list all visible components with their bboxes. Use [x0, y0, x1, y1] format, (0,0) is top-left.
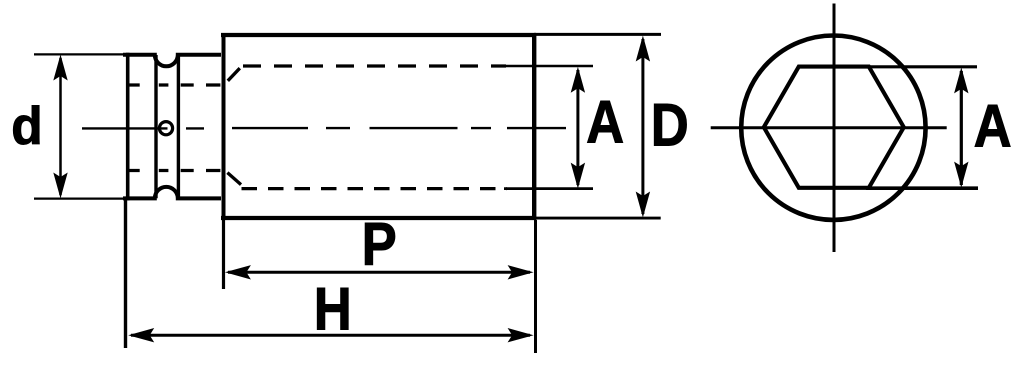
dimension A2 arrow line [960, 71, 963, 185]
end view horizontal centerline [711, 126, 947, 129]
hex bore [764, 67, 904, 188]
dimension A2 arrowhead down [954, 162, 968, 188]
dimension D arrow line [641, 39, 644, 214]
dimension A1 arrow line [576, 70, 579, 185]
svg-text:H: H [314, 276, 352, 343]
dimension H left extension line [124, 197, 127, 348]
centerline body [232, 127, 566, 129]
dimension A1 bottom extension line [504, 187, 593, 190]
svg-text:A: A [586, 89, 624, 156]
dimension d arrowhead up [53, 55, 67, 81]
socket body top edge [221, 33, 536, 37]
dimension H arrow line [131, 334, 530, 337]
svg-text:P: P [362, 211, 397, 278]
dimension d bottom extension line [34, 198, 125, 200]
dimension D top extension line [534, 33, 661, 36]
hex bore hidden line bottom [242, 187, 508, 190]
drive left edge [126, 53, 130, 201]
dimension A1 arrowhead up [571, 67, 585, 93]
label P [362, 211, 397, 278]
label H [314, 276, 352, 343]
label A1 [586, 89, 624, 156]
chamfer diagonal top [228, 68, 240, 81]
end view vertical centerline [833, 4, 836, 253]
dimension d top extension line [34, 53, 123, 55]
dimension P left extension line [222, 220, 225, 289]
drive hidden line top [129, 83, 220, 86]
socket body bottom edge [221, 216, 536, 220]
chamfer diagonal bottom [227, 173, 241, 185]
dimension A2 arrowhead up [954, 67, 968, 93]
dimension D arrowhead down [636, 192, 650, 218]
groove right edge [177, 55, 180, 198]
ball detent [159, 122, 172, 135]
dimension A2 top extension line [866, 65, 977, 68]
end view outer circle [741, 36, 925, 220]
drive bottom edge with groove notch [123, 187, 221, 198]
socket body right edge [532, 33, 536, 220]
dimension A1 arrowhead down [571, 163, 585, 189]
dimension D arrowhead up [636, 36, 650, 62]
dimension P arrowhead right [508, 265, 534, 279]
dimension A1 top extension line [504, 65, 593, 68]
label d [11, 98, 42, 157]
dimension H arrowhead left [128, 328, 154, 342]
dimension d arrow line [59, 58, 62, 195]
dimension H arrowhead right [508, 328, 534, 342]
drive top edge with groove notch [123, 55, 221, 66]
dimension D bottom extension line [534, 217, 661, 220]
dimension P right extension line [534, 220, 537, 353]
hex bore hidden line top [243, 64, 506, 67]
dimension A2 bottom extension line [866, 186, 978, 190]
dimension P arrowhead left [225, 265, 251, 279]
label A2 [974, 93, 1012, 160]
svg-text:A: A [974, 93, 1012, 160]
dimension P arrow line [228, 271, 530, 274]
groove left edge [154, 55, 157, 198]
socket body left edge [222, 33, 226, 220]
drive hidden line bottom [129, 169, 220, 172]
centerline left view [82, 127, 204, 129]
label D [651, 92, 689, 159]
dimension d arrowhead down [53, 173, 67, 199]
svg-text:d: d [11, 98, 42, 157]
svg-text:D: D [651, 92, 689, 159]
